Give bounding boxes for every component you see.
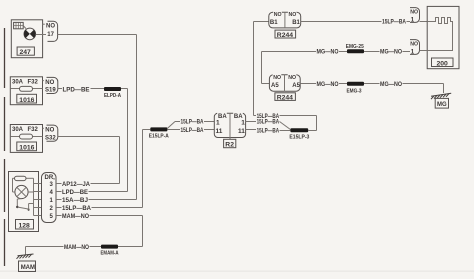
svg-text:S32: S32 <box>45 135 56 141</box>
svg-text:MG—NO: MG—NO <box>317 82 339 88</box>
svg-text:EMG-25: EMG-25 <box>346 44 364 50</box>
svg-text:MG—NO: MG—NO <box>380 82 402 88</box>
svg-text:B1: B1 <box>270 20 278 26</box>
svg-text:NO: NO <box>46 24 55 30</box>
svg-text:S19: S19 <box>45 88 56 94</box>
svg-text:15LP—BA: 15LP—BA <box>181 120 205 126</box>
svg-text:15LP—BA: 15LP—BA <box>382 19 407 25</box>
svg-text:ELPD-A: ELPD-A <box>104 93 121 99</box>
svg-text:NO: NO <box>273 75 281 81</box>
svg-text:LPD—BE: LPD—BE <box>62 190 88 196</box>
svg-text:DR,: DR, <box>45 175 56 181</box>
svg-text:A5: A5 <box>271 83 279 89</box>
svg-text:NO: NO <box>45 80 54 86</box>
svg-text:MG—NO: MG—NO <box>317 50 339 56</box>
svg-text:B1: B1 <box>292 20 300 26</box>
svg-text:200: 200 <box>437 60 449 67</box>
svg-text:MAM—NO: MAM—NO <box>64 245 89 251</box>
svg-text:NO: NO <box>288 75 296 81</box>
svg-text:NO: NO <box>410 42 418 48</box>
svg-text:15LP—BA: 15LP—BA <box>181 128 205 134</box>
svg-text:11: 11 <box>216 128 223 135</box>
svg-text:NO: NO <box>274 12 282 18</box>
svg-text:EMG-3: EMG-3 <box>347 88 362 94</box>
svg-text:15LP—BA: 15LP—BA <box>62 206 92 212</box>
svg-text:F32: F32 <box>28 127 39 133</box>
svg-text:15A—BJ: 15A—BJ <box>62 198 88 204</box>
svg-text:NO: NO <box>45 128 54 134</box>
svg-text:R244: R244 <box>277 94 293 101</box>
svg-text:15LP—BA: 15LP—BA <box>257 129 280 135</box>
svg-text:LPD—BE: LPD—BE <box>63 87 90 93</box>
svg-text:15LP—BA: 15LP—BA <box>257 120 280 126</box>
svg-text:15LP—BA: 15LP—BA <box>257 114 280 120</box>
svg-text:247: 247 <box>20 49 32 56</box>
svg-text:MAM—NO: MAM—NO <box>62 214 89 220</box>
svg-text:NO: NO <box>289 12 297 18</box>
svg-text:30A: 30A <box>12 127 24 133</box>
svg-text:30A: 30A <box>12 79 24 85</box>
svg-text:F32: F32 <box>28 79 39 85</box>
svg-text:11: 11 <box>238 128 245 135</box>
svg-text:128: 128 <box>19 223 31 230</box>
svg-text:R244: R244 <box>277 32 293 39</box>
svg-text:1: 1 <box>216 119 220 126</box>
svg-text:E15LP-3: E15LP-3 <box>289 135 309 141</box>
svg-text:MG: MG <box>437 102 447 108</box>
svg-text:E15LP-A: E15LP-A <box>149 134 169 140</box>
svg-text:NO: NO <box>410 10 418 16</box>
svg-text:17: 17 <box>47 32 54 38</box>
svg-text:MAM: MAM <box>21 265 35 271</box>
svg-text:1016: 1016 <box>19 145 34 152</box>
svg-text:AP12—JA: AP12—JA <box>62 182 91 188</box>
svg-text:MG—NO: MG—NO <box>380 50 402 56</box>
svg-text:A5: A5 <box>292 83 300 89</box>
svg-text:1016: 1016 <box>19 97 34 104</box>
svg-text:1: 1 <box>241 119 245 126</box>
svg-text:EMAM-A: EMAM-A <box>101 250 119 256</box>
svg-text:R2: R2 <box>225 142 234 149</box>
